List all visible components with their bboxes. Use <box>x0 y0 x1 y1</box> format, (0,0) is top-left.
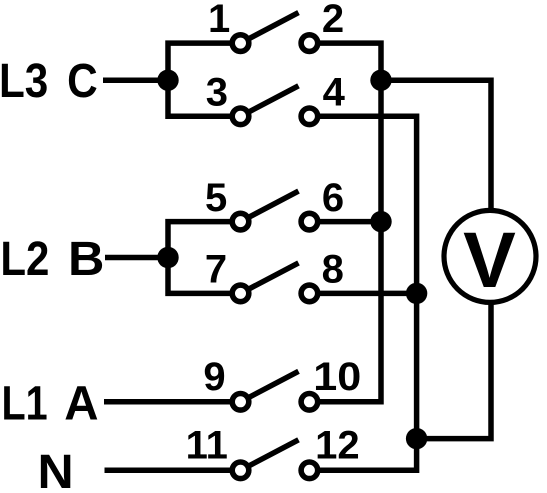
svg-text:A: A <box>64 378 98 431</box>
svg-text:L3: L3 <box>0 55 48 108</box>
svg-text:4: 4 <box>323 70 346 114</box>
svg-text:8: 8 <box>322 248 344 292</box>
svg-text:7: 7 <box>205 248 227 292</box>
svg-text:5: 5 <box>205 176 227 220</box>
svg-text:V: V <box>463 215 516 304</box>
svg-text:11: 11 <box>186 424 228 468</box>
svg-text:L1: L1 <box>2 378 48 431</box>
svg-text:L2: L2 <box>0 233 49 286</box>
svg-text:C: C <box>67 55 98 108</box>
svg-text:3: 3 <box>206 70 228 114</box>
svg-text:12: 12 <box>315 424 360 468</box>
svg-text:6: 6 <box>322 176 344 220</box>
svg-text:10: 10 <box>313 355 361 399</box>
svg-text:B: B <box>68 233 104 286</box>
svg-text:1: 1 <box>208 0 230 41</box>
svg-text:9: 9 <box>203 355 225 399</box>
svg-text:N: N <box>38 446 74 493</box>
svg-text:2: 2 <box>322 0 344 41</box>
